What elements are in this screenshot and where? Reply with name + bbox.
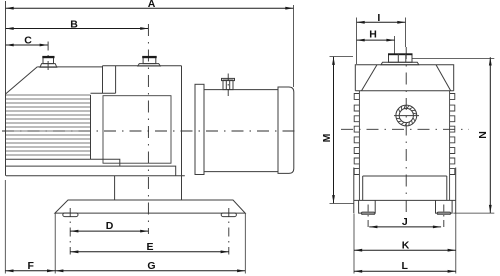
- svg-text:K: K: [402, 240, 410, 252]
- foot slot centerline right: [443, 205, 445, 231]
- feet top line: [354, 199, 456, 201]
- dimension I: [357, 12, 406, 24]
- oil plug outer circle: [396, 105, 417, 126]
- dimension C: [6, 35, 48, 47]
- M top extension: [330, 56, 354, 58]
- fin stack right edge: [90, 95, 92, 159]
- dimension N: [477, 57, 492, 213]
- oil tank top: [355, 65, 453, 91]
- port 1 neck: [43, 57, 54, 64]
- pump module inner rect: [103, 96, 171, 164]
- right view vertical centerline: [405, 47, 407, 224]
- oil plug slot line: [394, 115, 419, 117]
- port 2 centerline: [147, 24, 149, 234]
- coupling ring flange: [195, 84, 204, 174]
- extension line base left tip: [54, 214, 56, 274]
- dimension F: [5, 260, 55, 272]
- motor cooling fins: [6, 95, 91, 155]
- inlet cap (hex): [388, 53, 413, 62]
- lower block right edge: [446, 176, 448, 200]
- lower block left edge: [362, 176, 364, 200]
- left view horizontal centerline: [2, 130, 297, 132]
- port 2 flange: [138, 64, 161, 66]
- motor cylinder bottom: [204, 171, 278, 173]
- extension line F left: [4, 180, 6, 274]
- svg-text:N: N: [477, 131, 489, 139]
- svg-text:C: C: [24, 35, 32, 47]
- slot centerline left: [69, 208, 71, 255]
- port 2 neck: [143, 57, 156, 64]
- dimension K: [354, 240, 456, 252]
- svg-text:B: B: [70, 18, 78, 30]
- extension line base right tip: [244, 214, 246, 274]
- fin tabs right: [450, 94, 455, 175]
- dimension A: [6, 0, 294, 10]
- base slot left: [63, 213, 78, 217]
- fitting centerline: [227, 74, 229, 99]
- extension line H right: [394, 36, 396, 54]
- svg-text:L: L: [401, 260, 408, 272]
- svg-text:A: A: [148, 0, 156, 10]
- port 1 centerline: [47, 42, 49, 73]
- oil plug inner circle: [399, 108, 413, 122]
- pump body front right edge: [449, 91, 451, 201]
- body bottom edge (right view): [363, 175, 447, 177]
- base slot right: [221, 213, 236, 217]
- block top edge: [103, 65, 182, 67]
- dimension G: [55, 260, 245, 272]
- foot left: [359, 200, 376, 213]
- base plate: [55, 200, 245, 213]
- fin tabs left: [354, 94, 359, 175]
- M bottom extension: [330, 203, 354, 205]
- dimension H: [357, 28, 395, 41]
- motor cylinder top: [204, 89, 278, 91]
- svg-text:M: M: [321, 133, 333, 142]
- oil plug knurl: [396, 105, 416, 125]
- joint box left vertical: [102, 66, 104, 93]
- svg-text:F: F: [27, 260, 34, 272]
- svg-text:I: I: [377, 12, 380, 24]
- N bottom extension: [453, 212, 494, 214]
- svg-text:H: H: [369, 28, 377, 40]
- right view horizontal centerline: [341, 128, 469, 130]
- pump body front left edge: [358, 91, 360, 201]
- cowl bottom step: [6, 159, 120, 166]
- svg-text:E: E: [146, 241, 153, 253]
- foot slot centerline left: [367, 205, 369, 231]
- N top extension: [412, 58, 494, 60]
- cowl top edge: [37, 66, 102, 68]
- dimension D: [70, 220, 148, 233]
- joint box right vertical: [115, 66, 117, 93]
- extension line H/I left: [356, 18, 358, 65]
- dimension M: [321, 57, 335, 204]
- port 1 flange: [40, 64, 57, 68]
- svg-text:J: J: [402, 216, 408, 228]
- svg-text:D: D: [106, 220, 114, 232]
- svg-text:G: G: [147, 260, 155, 272]
- dimension B: [6, 18, 149, 30]
- inlet cap flange: [381, 62, 419, 65]
- band line with step: [6, 166, 176, 176]
- motor end cap: [278, 87, 294, 173]
- port 1 cap bar: [42, 56, 54, 58]
- extension line I right: [405, 18, 407, 48]
- extension line K/L right: [455, 214, 457, 274]
- pump cowl slant top: [6, 67, 38, 94]
- motor top fitting: [222, 78, 235, 89]
- pump left edge: [5, 94, 7, 176]
- shell left: [353, 168, 355, 214]
- joint box bottom: [91, 92, 116, 94]
- body bottom edge (left view): [6, 175, 185, 177]
- foot left slot: [361, 212, 375, 215]
- foot right slot: [437, 212, 451, 215]
- block right edge: [181, 66, 183, 200]
- dimension E: [70, 241, 229, 253]
- pedestal left vertical: [114, 176, 116, 200]
- shell right: [455, 168, 457, 214]
- extension line left edge: [5, 1, 7, 94]
- extension line A right: [293, 5, 295, 87]
- dimension L: [354, 260, 456, 273]
- foot right: [436, 200, 453, 213]
- dimension J: [369, 216, 441, 228]
- extension line K/L left: [353, 214, 355, 274]
- port 2 cap bar: [142, 56, 157, 58]
- slot centerline right: [228, 208, 230, 255]
